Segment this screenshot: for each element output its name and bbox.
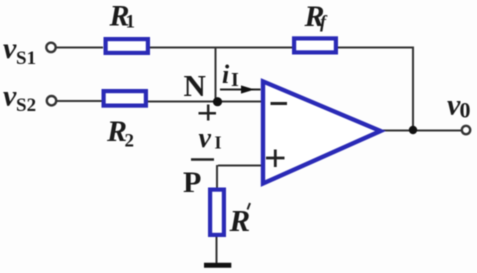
svg-text:v: v <box>3 32 17 65</box>
svg-text:f: f <box>320 12 328 32</box>
svg-text:S1: S1 <box>16 48 36 69</box>
svg-text:v: v <box>3 80 17 113</box>
svg-text:P: P <box>183 166 201 199</box>
svg-text:1: 1 <box>126 12 136 33</box>
svg-text:I: I <box>231 69 239 91</box>
svg-text:2: 2 <box>125 131 135 152</box>
svg-text:I: I <box>215 133 222 153</box>
svg-text:S2: S2 <box>16 95 36 116</box>
svg-text:0: 0 <box>460 98 471 123</box>
svg-text:i: i <box>222 60 230 89</box>
svg-text:N: N <box>184 68 206 103</box>
svg-text:v: v <box>199 123 212 154</box>
